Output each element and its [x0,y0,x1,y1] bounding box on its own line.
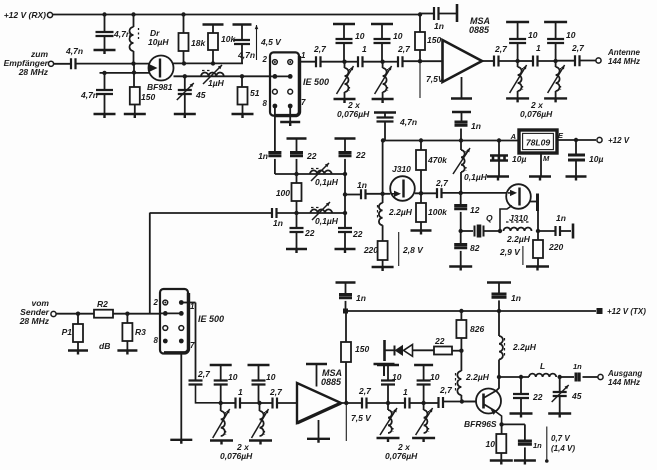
wire Dr node vertical [133,64,135,87]
svg-text:M: M [543,154,550,163]
ground osc bottom right [335,249,356,253]
wire source line BF981 [100,72,151,74]
svg-text:dB: dB [99,341,110,351]
svg-text:J310: J310 [392,164,411,174]
svg-text:220: 220 [548,242,563,252]
node buffer source junction [498,229,502,233]
svg-text:1n: 1n [357,180,367,190]
wire output line [499,376,529,378]
svg-text:R3: R3 [135,327,146,337]
svg-text:10: 10 [266,372,276,382]
node Ausgang terminal [598,374,603,379]
node TX filter left junction [219,401,223,405]
svg-text:10: 10 [393,31,403,41]
capacitor 2,7 filter1 out [383,61,398,63]
svg-text:+12 V (TX): +12 V (TX) [607,307,646,316]
capacitor 1n output [560,376,574,378]
capacitor 1 TX filter2 [388,402,405,404]
capacitor 22 osc upper right [335,137,356,139]
wire gate line to BF981 [76,63,150,65]
wire MSA2 bottom leg [318,420,320,438]
op-amp U5 MSA 0885 MMIC amplifier TX [297,383,341,423]
wire buffer output stub bar [572,224,575,239]
wire buffer drain bar [530,201,537,203]
inductor 0,1µH variable osc [459,138,463,142]
op-amp U2 MSA 0885 MMIC amplifier RX [443,40,483,82]
svg-text:150: 150 [427,35,441,45]
capacitor 12 divider [460,193,462,206]
node TX filter2 right junction [421,401,425,405]
capacitor 22 osc bottom left [296,213,298,228]
svg-text:18k: 18k [191,38,206,48]
node buffer output junction [536,229,540,233]
node MSA1 input junction [418,59,422,63]
svg-text:0885: 0885 [469,25,490,35]
mixer 1 pins [273,60,278,65]
wire MSA1 output [482,60,494,62]
svg-text:4,7n: 4,7n [399,117,417,127]
wire mixer1 output row [299,61,316,63]
svg-text:220: 220 [363,245,378,255]
svg-text:150: 150 [355,344,369,354]
wire buffer source down [500,206,512,232]
svg-text:BF981: BF981 [147,82,173,92]
svg-text:0,076µH: 0,076µH [385,451,418,461]
svg-text:0,7 V: 0,7 V [551,434,570,443]
inductor 0,076µH filter2 right [555,61,557,67]
capacitor 10µ rail filter [497,138,501,142]
resistor 220 osc source [378,241,388,260]
wire 78L09 output to +12V terminal [557,139,596,141]
svg-text:1n: 1n [273,218,283,228]
ground under 1n emitter [514,461,536,465]
capacitor 1n MSA1 decoupling to rail [452,111,471,113]
node filter2 left junction [515,59,519,63]
svg-text:826: 826 [470,324,484,334]
svg-text:28 MHz: 28 MHz [18,67,49,77]
capacitor 2,7 osc coupling [437,188,442,198]
svg-text:12: 12 [470,205,480,215]
ground under trimmer 45 output [548,414,571,418]
svg-text:1n: 1n [471,121,481,131]
ground under 82 [449,267,472,271]
svg-text:4,7n: 4,7n [237,50,255,60]
capacitor 10 filter1 left [333,23,355,25]
resistor 826 bias [459,309,463,313]
node +12V TX terminal [597,308,603,314]
capacitor 1n buffer output [538,230,556,232]
svg-text:Antenne: Antenne [607,48,641,57]
capacitor 1n osc to gate [345,194,361,196]
node buffer gate junction [459,191,463,195]
transistor Q1 BF981 dual gate MOSFET [149,56,174,81]
capacitor 1 TX filter [221,402,236,404]
inductor 2,2µH osc source [379,203,383,225]
svg-text:82: 82 [470,243,480,253]
svg-text:28 MHz: 28 MHz [19,316,50,326]
svg-text:+12 V (RX): +12 V (RX) [4,10,46,20]
svg-text:1: 1 [238,387,243,397]
wire mixer1 pin7 to ground [289,106,291,122]
svg-text:0,1µH: 0,1µH [464,172,488,182]
svg-text:IE 500: IE 500 [198,314,224,324]
node 4,5V measurement arrow [256,25,258,60]
ground filter2 right [544,98,567,102]
resistor 51 mixer termination [241,76,243,87]
svg-text:4,5 V: 4,5 V [260,37,282,47]
ground MSA2 bottom [307,439,330,443]
svg-text:BFR96S: BFR96S [464,419,497,429]
capacitor 2,7 output coupling [494,56,499,67]
svg-text:2,7: 2,7 [435,178,449,188]
svg-text:2,8 V: 2,8 V [402,245,424,255]
capacitor 10µ output filter [575,140,577,155]
capacitor 2,7 driver coupling [424,402,439,404]
capacitor 10 filter2 left [506,21,529,23]
crystal Q 38,6 MHz [461,230,473,232]
inductor 0,076µH filter1 left [344,62,346,68]
mixer U4 IE 500 box TX [160,289,188,354]
node osc upper right junction [343,172,347,176]
ground TX filter right [249,441,272,445]
node driver base junction [460,399,464,403]
node input terminal zum Empfaenger 28 MHz [48,61,53,66]
wire buffer gate line [461,192,507,194]
wire +12V RX top rail [53,14,421,16]
svg-text:+12 V: +12 V [608,136,630,145]
svg-text:0,076µH: 0,076µH [337,109,370,119]
svg-text:A: A [510,132,516,141]
svg-text:10: 10 [228,372,238,382]
wire mixer1 input row [270,75,290,77]
ground filter2 left [506,98,529,102]
wire emitter down [496,412,502,425]
svg-text:10µ: 10µ [589,154,603,164]
wire osc source to 220 [382,225,384,241]
trimmer capacitor 45 output [559,377,561,392]
inductor Dr 10µH drain choke [131,12,135,16]
node osc takeoff junction [343,192,347,196]
inductor 0,1µH osc upper [310,170,332,174]
inductor 2,2µH buffer horizontal [504,228,532,232]
node filter1 left junction [342,60,346,64]
svg-text:10µ: 10µ [512,154,526,164]
node TX filter right junction [257,401,261,405]
svg-text:22: 22 [352,229,363,239]
resistor R3 attenuator [126,314,128,323]
capacitor 4,7n input coupling [54,63,72,65]
svg-text:1n: 1n [434,21,444,31]
capacitor 10 filter2 right [544,21,567,23]
wire +9V supply rail [383,140,520,142]
inductor 1µH variable [201,73,224,77]
capacitor 10 TX filter2 left [377,364,399,366]
capacitor 4,7n oscillator rail stub [374,111,396,113]
svg-text:1n: 1n [533,441,542,450]
capacitor 22 osc upper left [287,137,307,139]
node collector output junction [497,375,501,379]
transistor Q3 J310 buffer [506,184,531,209]
wire +12V TX rail [346,310,597,312]
ground MSA1 [451,97,472,99]
ground TX filter left [210,441,233,445]
svg-text:10: 10 [430,372,440,382]
svg-text:10: 10 [528,30,538,40]
capacitor 1 filter2 [518,60,533,62]
capacitor 1n TX rail stub [336,281,356,283]
wire osc lower node line [150,212,272,214]
resistor 220 buffer [537,231,539,240]
svg-text:0,1µH: 0,1µH [315,177,339,187]
svg-text:P1: P1 [62,327,73,337]
inductor 0,076µH filter1 right [382,62,384,68]
svg-text:10: 10 [355,31,365,41]
capacitor 2,7 coupling [316,56,321,67]
capacitor 2,7 TX filter2 in [362,398,367,409]
wire J310 drain branch [382,141,384,204]
resistor 470k oscillator bias [419,138,423,142]
regulator U3 78L09 [519,130,557,153]
node 2,9V measurement [522,246,524,265]
wire osc tank vertical [344,174,346,228]
ground under 10µ right [566,177,587,181]
svg-text:10: 10 [486,439,496,449]
inductor 2,2µH collector choke [498,311,500,336]
trimmer capacitor 45 [184,76,186,90]
inductor 0,076µH TX filter2 right [423,403,425,410]
resistor 10k gate2 bias lower [203,23,224,25]
wire MSA1 ground leg [461,77,463,98]
svg-text:1n: 1n [356,293,366,303]
svg-text:0885: 0885 [321,377,342,387]
resistor R2 attenuator [94,310,113,318]
node MSA2 output junction [341,402,362,404]
ground under trimmer 45 [174,114,196,118]
capacitor 22 output [520,377,522,394]
resistor 100 oscillator feedback [296,174,298,183]
svg-text:470k: 470k [427,155,448,165]
capacitor 82 divider [460,231,462,245]
svg-text:7,5 V: 7,5 V [351,413,372,423]
svg-text:7: 7 [301,98,306,107]
wire drain line BF981 to bias divider [173,62,243,64]
svg-text:8: 8 [263,99,268,108]
resistor R1 attenuator [77,314,79,324]
svg-text:2.2µH: 2.2µH [465,372,490,382]
svg-text:1n: 1n [556,213,566,223]
node output trimmer junction [558,375,562,379]
ground under 4,7n rail bypass [94,50,116,54]
capacitor 4,7n rail bypass [104,15,106,33]
svg-text:22: 22 [355,150,366,160]
resistor 150 MSA2 bias [345,311,347,342]
svg-text:(1,4 V): (1,4 V) [551,444,575,453]
svg-text:2.2µH: 2.2µH [506,234,531,244]
svg-text:R2: R2 [97,299,108,309]
ground under R1 [68,351,88,355]
ground TX filter2 right [412,438,435,442]
capacitor 1n collector rail stub [487,281,511,283]
resistor 18k gate2 bias upper [181,12,185,16]
ground under 100k [411,231,432,235]
svg-text:2,9 V: 2,9 V [499,247,521,257]
svg-text:1n: 1n [511,293,521,303]
svg-text:2,7: 2,7 [269,387,283,397]
wire mixer2 pin1 output [181,302,195,304]
svg-text:144 MHz: 144 MHz [608,57,640,66]
resistor 150 source bias [130,87,140,105]
resistor 22 bias series [434,347,452,355]
ground under 220 osc [372,267,394,271]
svg-text:0,076µH: 0,076µH [520,109,553,119]
svg-text:10: 10 [392,372,402,382]
svg-text:2.2µH: 2.2µH [388,207,413,217]
capacitor 2,7 mixer2 output [189,381,203,385]
ground under R3 [117,351,137,355]
inductor 0,076µH filter2 left [517,61,519,67]
wire R2 to R3 node [113,313,160,315]
node output C junction [519,375,523,379]
capacitor 10 TX filter2 right [414,364,433,366]
svg-text:L: L [540,361,545,371]
ground under 150 [134,105,136,114]
inductor L output [529,374,556,377]
svg-text:1: 1 [301,51,306,60]
svg-text:2,7: 2,7 [494,44,508,54]
svg-text:78L09: 78L09 [526,138,551,148]
ground osc bottom left [286,249,307,253]
node rail junction J310 branch [381,138,385,142]
capacitor 2,7 MSA2 input [260,402,273,404]
svg-text:2,7: 2,7 [397,44,411,54]
svg-text:7: 7 [190,341,195,350]
svg-text:10µH: 10µH [148,37,169,47]
svg-text:1n: 1n [258,151,268,161]
svg-text:45: 45 [571,391,582,401]
wire MSA2 top leg [316,364,318,387]
svg-text:1: 1 [536,43,541,53]
capacitor 1n emitter bypass [502,423,525,425]
inductor 0,076µH TX left [220,403,222,411]
capacitor 10 TX filter left [210,364,232,366]
wire osc upper node [275,173,345,175]
mixer 2 pins [163,300,168,305]
svg-text:8: 8 [154,336,159,345]
svg-text:IE 500: IE 500 [303,77,329,87]
wire collector up [497,377,500,391]
svg-text:22: 22 [434,336,445,346]
svg-text:2,7: 2,7 [358,386,372,396]
svg-text:2,7: 2,7 [197,369,211,379]
svg-text:22: 22 [532,392,543,402]
svg-text:0,076µH: 0,076µH [220,451,253,461]
node emitter junction [499,422,503,426]
ground under 78L09 [529,177,551,181]
wire base line [462,401,476,403]
diode D2 [395,345,404,356]
svg-text:100: 100 [276,188,290,198]
svg-text:1n: 1n [573,362,582,371]
resistor 100k osc gate leak [420,193,422,203]
capacitor 1n mixer injection top [268,153,281,156]
node filter2 right junction [553,59,557,63]
wire oscillator injection vertical [149,213,151,314]
wire mixer1 pin8 down to oscillator injection [274,106,276,153]
ground filter1 left [334,99,356,103]
svg-text:2: 2 [262,55,268,64]
ground mixer1 [280,122,300,126]
resistor 10 emitter [501,424,503,434]
capacitor 1n osc series [272,208,277,218]
svg-text:4,7n: 4,7n [65,46,83,56]
inductor 0,076µH TX right [259,403,261,411]
svg-text:0,1µH: 0,1µH [315,216,339,226]
wire mixer2 pin7 to ground [180,354,182,440]
svg-text:150: 150 [141,92,155,102]
node diode bias junction [459,349,463,353]
ground under source bypass [94,114,116,118]
ground under 10µ left [487,177,509,181]
node TX filter2 left junction [386,401,390,405]
ground TX filter2 left [377,438,400,442]
svg-text:Ausgang: Ausgang [607,369,642,378]
svg-text:4,7n: 4,7n [113,29,131,39]
ground under 51 [232,114,254,118]
resistor 150 MSA1 bias [418,12,422,16]
node +12V output terminal [597,137,602,142]
wire mixer2 input row [160,312,181,314]
node osc lower right junction [343,211,347,215]
wire 78L09 M pin to ground [540,153,542,176]
node TX rail collector junction [497,309,501,313]
svg-text:4,7n: 4,7n [80,90,98,100]
capacitor 10 TX filter right [248,364,270,366]
diode D1 [413,349,434,351]
capacitor 10 filter1 right [371,23,393,25]
svg-text:2,7: 2,7 [313,44,327,54]
node filter1 right junction [380,60,384,64]
node +12V RX supply terminal [47,12,52,17]
svg-text:45: 45 [195,90,206,100]
transistor Q2 J310 oscillator [390,176,415,201]
wire diode to stub plate [385,349,395,351]
svg-text:22: 22 [306,151,317,161]
svg-text:2,7: 2,7 [571,43,585,53]
ground under 22 output [510,414,533,418]
node vom Sender terminal [51,311,56,316]
capacitor 22 osc bottom right [338,228,352,232]
node 0,7V measurement [546,427,548,462]
inductor 0,1µH osc lower [311,209,333,213]
wire sender input line [56,313,94,315]
ground filter1 right [372,99,394,103]
ground mixer2 bottom [170,440,192,444]
node crystal node [459,229,463,233]
svg-text:1µH: 1µH [208,78,225,88]
ground under 220 buffer [526,267,549,271]
svg-text:1: 1 [403,387,408,397]
node antenna terminal [596,58,601,63]
capacitor 4,7n source bypass [104,73,106,90]
wire BF981 output to mixer [174,75,271,77]
svg-text:1: 1 [362,44,367,54]
mixer U1 IE 500 box [270,52,299,115]
node 7,5V measurement TX [345,403,347,441]
svg-text:Q: Q [486,213,493,223]
svg-text:51: 51 [250,88,260,98]
wire J310 output row [415,192,437,194]
capacitor 2,7 antenna coupling [556,60,575,62]
